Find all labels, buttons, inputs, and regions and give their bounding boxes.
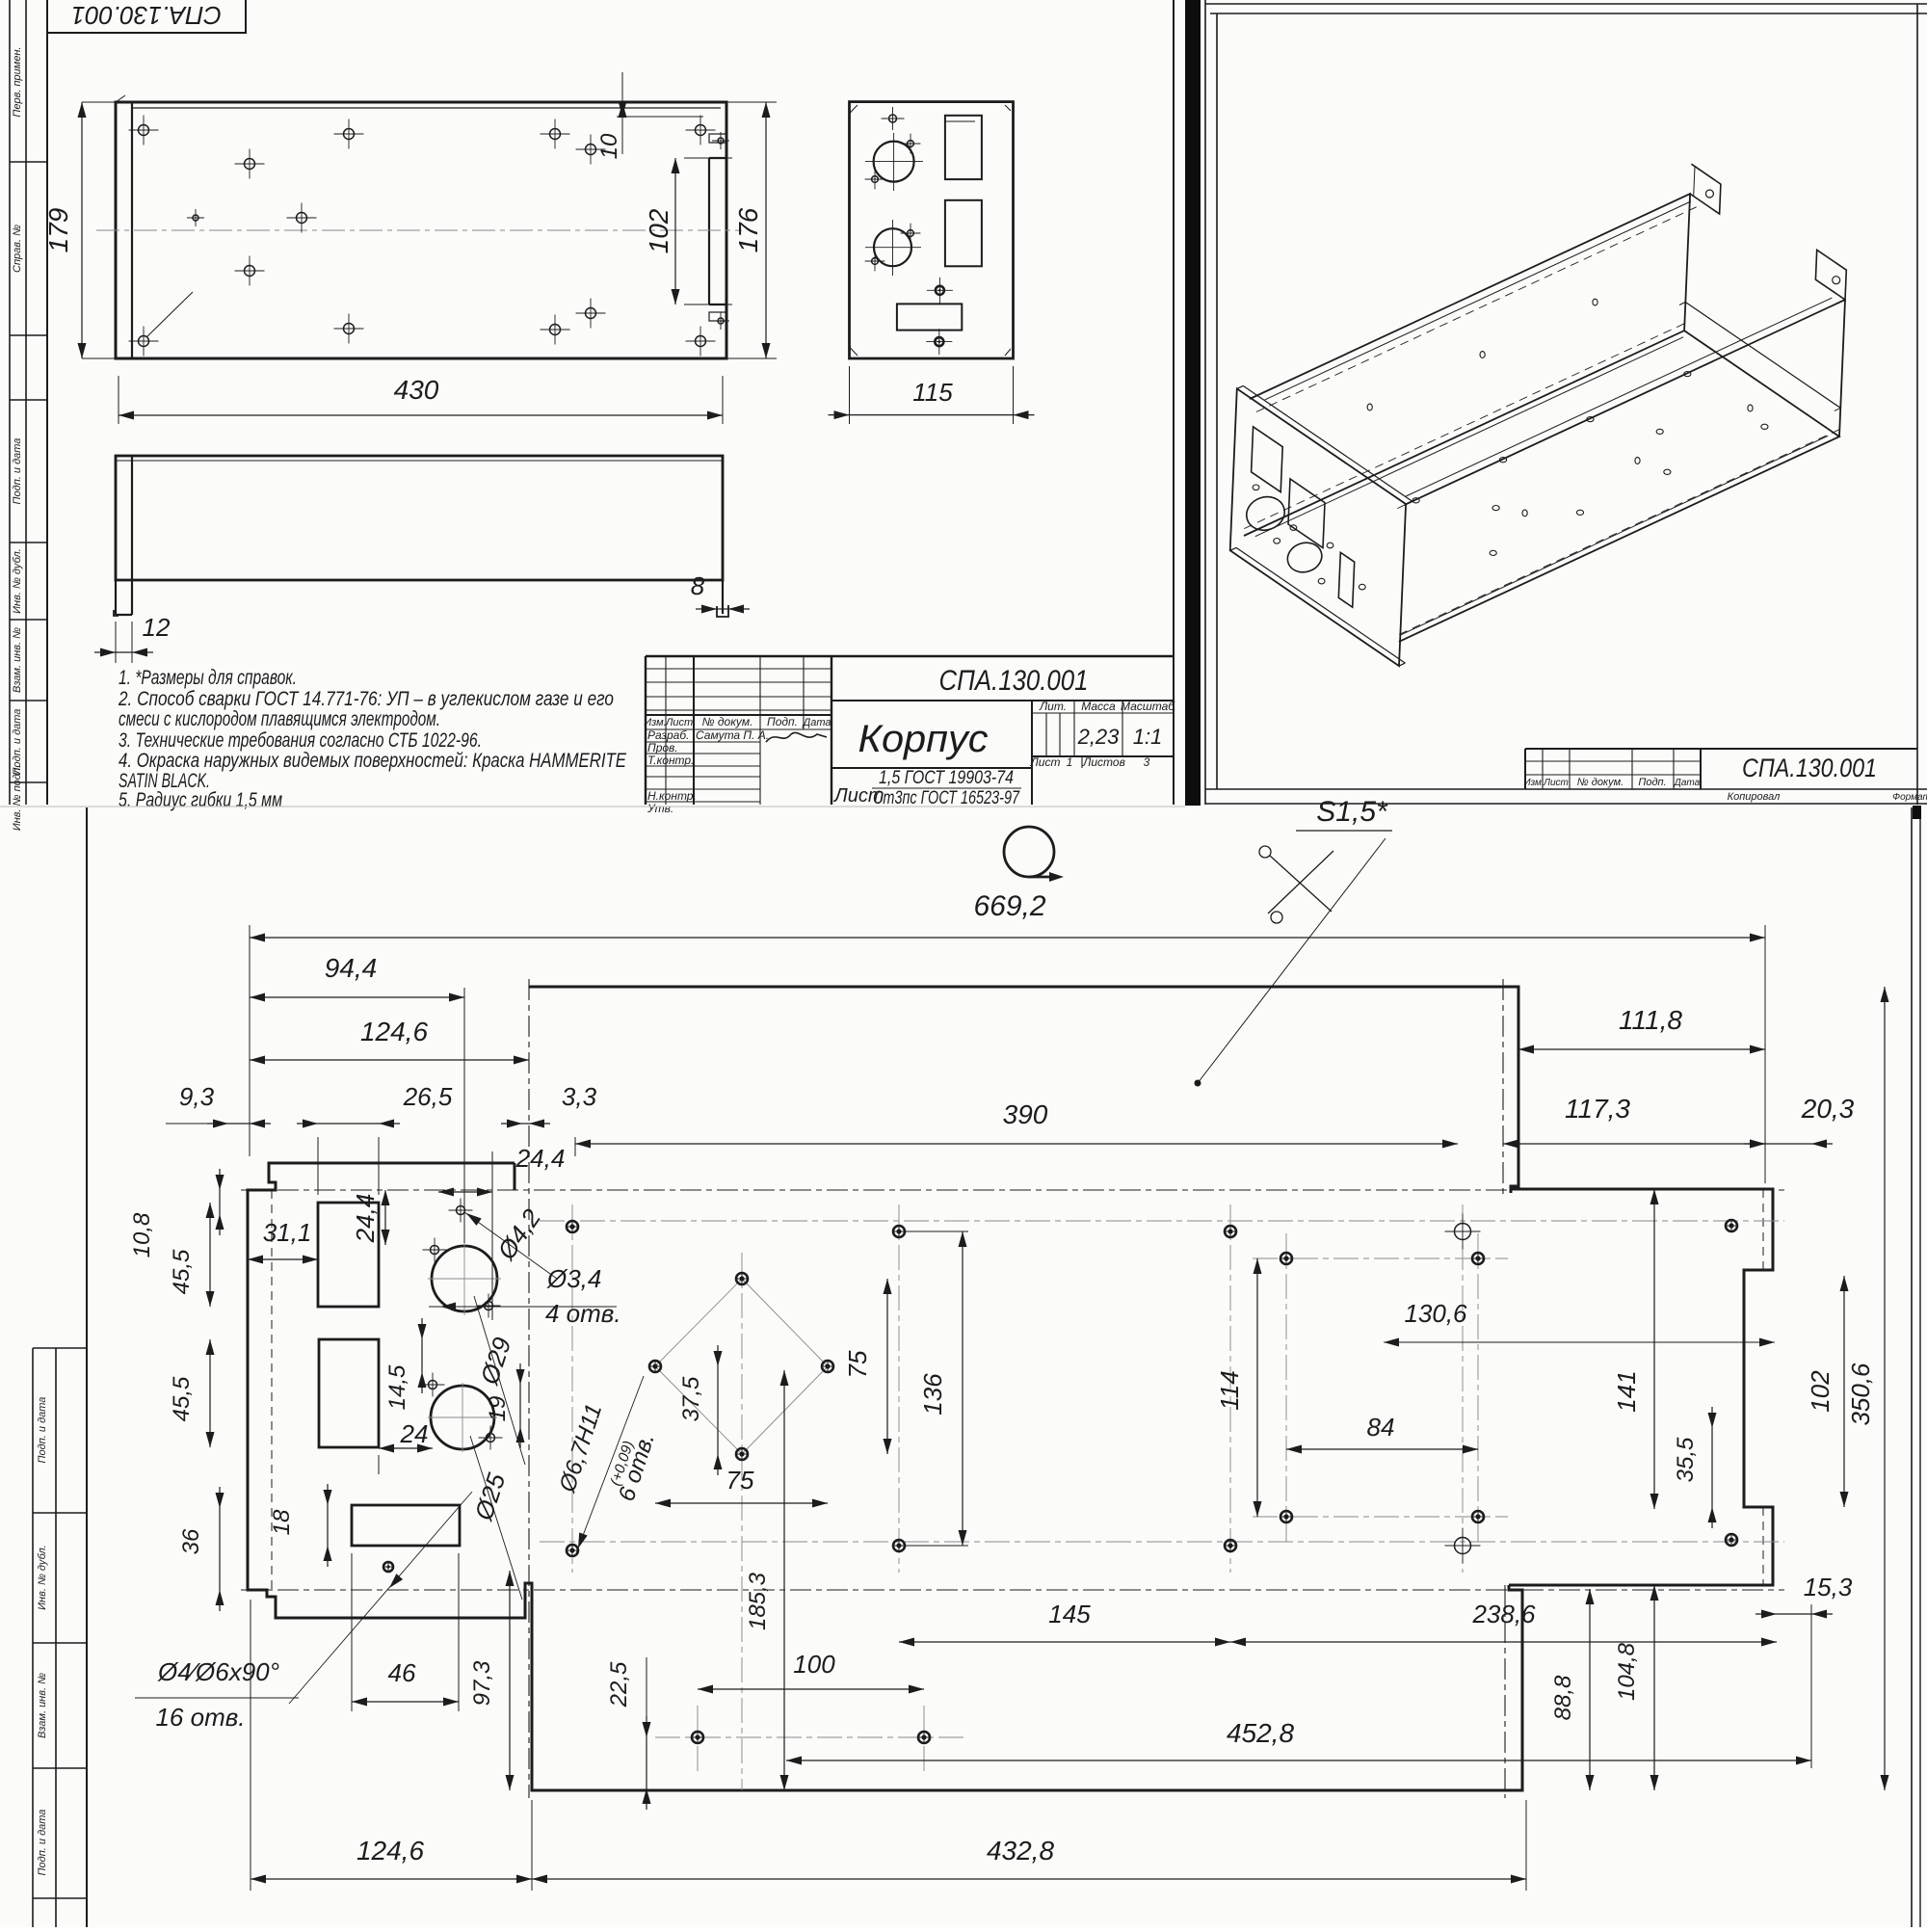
svg-text:185,3: 185,3 xyxy=(745,1572,771,1630)
dim 179 xyxy=(82,101,116,103)
dim 102 xyxy=(684,157,732,159)
svg-text:Разраб.: Разраб. xyxy=(647,728,689,742)
panel round holes isometric xyxy=(1242,492,1289,536)
svg-text:100: 100 xyxy=(793,1650,835,1679)
svg-text:СПА.130.001: СПА.130.001 xyxy=(1742,754,1877,782)
dim 88.8 xyxy=(1589,1589,1591,1790)
svg-text:124,6: 124,6 xyxy=(356,1836,424,1866)
svg-text:Перв. примен.: Перв. примен. xyxy=(12,46,23,117)
dim 100 xyxy=(698,1688,924,1690)
dim 19 xyxy=(519,1385,521,1427)
list row xyxy=(1081,756,1083,768)
diamond pattern xyxy=(655,1279,742,1366)
svg-text:88,8: 88,8 xyxy=(1550,1675,1576,1720)
svg-text:S1,5*: S1,5* xyxy=(1316,796,1388,828)
dim 15.3 xyxy=(1777,1613,1811,1615)
top view centerline xyxy=(96,229,742,231)
dim 97.3 xyxy=(509,1571,511,1790)
svg-text:45,5: 45,5 xyxy=(169,1249,195,1294)
dim 24 xyxy=(378,1455,380,1474)
svg-text:35,5: 35,5 xyxy=(1673,1437,1699,1482)
bottom holes iso xyxy=(1412,498,1419,503)
dim 104.8 xyxy=(1653,1585,1655,1790)
isometric box edges xyxy=(1244,331,1839,642)
svg-text:124,6: 124,6 xyxy=(360,1017,428,1046)
panel circle 1 xyxy=(874,142,914,182)
scan separator band xyxy=(1185,0,1201,806)
svg-text:4. Окраска наружных видемых: 4. Окраска наружных видемых поверхностей… xyxy=(119,750,627,772)
svg-text:Справ. №: Справ. № xyxy=(12,225,23,273)
svg-text:Пров.: Пров. xyxy=(647,741,678,754)
svg-text:Лит.: Лит. xyxy=(1039,700,1067,713)
dim 145 238.6 xyxy=(899,1641,1230,1643)
sheet3 left margin boxes xyxy=(86,807,88,1927)
svg-text:СПА.130.001: СПА.130.001 xyxy=(939,665,1089,697)
dim 10.8 xyxy=(219,1190,221,1214)
dim 14.5 xyxy=(421,1339,423,1372)
panel holes xyxy=(889,115,897,122)
svg-text:141: 141 xyxy=(1612,1370,1641,1412)
svg-text:37,5: 37,5 xyxy=(678,1376,704,1421)
dim 111.8 xyxy=(1518,1048,1765,1050)
svg-text:432,8: 432,8 xyxy=(987,1836,1054,1866)
svg-text:8: 8 xyxy=(691,571,705,600)
dim 3.3 xyxy=(522,1123,529,1125)
top view right notch xyxy=(708,158,710,304)
svg-text:26,5: 26,5 xyxy=(403,1082,453,1111)
back-right tab xyxy=(1815,250,1846,300)
svg-text:115: 115 xyxy=(912,378,953,407)
svg-text:1: 1 xyxy=(1067,755,1073,769)
dim 176 xyxy=(726,101,777,103)
svg-text:669,2: 669,2 xyxy=(973,890,1045,922)
dim 20.3 xyxy=(1765,1143,1811,1145)
svg-text:смеси с кислородом плавящимся: смеси с кислородом плавящимся электродом… xyxy=(119,708,440,730)
svg-text:84: 84 xyxy=(1367,1413,1395,1442)
dim 18 xyxy=(327,1505,329,1546)
svg-text:Т.контр.: Т.контр. xyxy=(647,754,694,767)
svg-text:3. Технические требования сог: 3. Технические требования согласно СТБ 1… xyxy=(119,729,482,752)
dim 117.3 xyxy=(1503,1143,1765,1145)
svg-text:18: 18 xyxy=(269,1509,295,1535)
svg-text:Изм.: Изм. xyxy=(1523,778,1544,788)
svg-text:Подп.: Подп. xyxy=(767,715,798,728)
svg-text:Лист: Лист xyxy=(1030,755,1061,769)
svg-text:390: 390 xyxy=(1003,1099,1048,1129)
dim 84 xyxy=(1286,1448,1478,1450)
svg-text:1:1: 1:1 xyxy=(1133,725,1163,749)
svg-text:Лист: Лист xyxy=(1543,778,1569,788)
svg-text:111,8: 111,8 xyxy=(1619,1005,1682,1035)
lit massa masshtab xyxy=(1032,712,1174,714)
side panel view outline xyxy=(850,102,1014,358)
svg-text:2,23: 2,23 xyxy=(1077,725,1121,749)
svg-text:Самута П. А.: Самута П. А. xyxy=(696,728,769,742)
bottom flap holes xyxy=(692,1732,703,1743)
svg-text:75: 75 xyxy=(843,1350,872,1378)
svg-text:45,5: 45,5 xyxy=(169,1376,195,1421)
svg-text:238,6: 238,6 xyxy=(1471,1600,1536,1628)
flat pattern outline left/bottom xyxy=(248,1163,1522,1790)
dim 31.1 xyxy=(248,1258,318,1260)
windows in panel region xyxy=(318,1203,379,1307)
dim 136 xyxy=(905,1231,968,1232)
back-left tab xyxy=(1690,164,1721,214)
svg-text:Подп.: Подп. xyxy=(1638,777,1666,788)
svg-text:19: 19 xyxy=(485,1396,511,1422)
rotation symbol xyxy=(1004,827,1054,877)
dashed bend lines iso xyxy=(1256,207,1697,412)
dim 10 xyxy=(617,116,703,118)
svg-text:176: 176 xyxy=(733,207,763,252)
dim 124.6 xyxy=(250,1059,529,1061)
dim 452.8 xyxy=(786,1760,1811,1761)
dim 130.6 xyxy=(1384,1341,1775,1343)
dim 94.4 xyxy=(463,988,465,1243)
svg-text:Подп. и дата: Подп. и дата xyxy=(12,438,23,505)
svg-text:3: 3 xyxy=(1144,755,1150,769)
front view outline xyxy=(116,456,723,580)
dim 45.5 lower xyxy=(209,1339,211,1447)
svg-text:94,4: 94,4 xyxy=(325,953,378,983)
pitch centerlines gray xyxy=(540,1220,1784,1222)
svg-text:Н.контр.: Н.контр. xyxy=(647,789,697,803)
dim 22.5 xyxy=(646,1737,647,1788)
svg-text:350,6: 350,6 xyxy=(1846,1363,1875,1426)
svg-text:№ докум.: № докум. xyxy=(1577,777,1623,788)
svg-text:СПА.130.001: СПА.130.001 xyxy=(71,1,222,30)
dim 9.3 xyxy=(228,1123,250,1125)
sheet3 right frame xyxy=(1911,807,1913,1927)
sheet 2 frame xyxy=(1205,3,1927,5)
flat pattern outline top/right xyxy=(529,987,1518,1193)
svg-text:Изм.: Изм. xyxy=(644,717,666,728)
svg-text:15,3: 15,3 xyxy=(1804,1573,1853,1601)
svg-text:12: 12 xyxy=(143,613,171,642)
svg-text:10: 10 xyxy=(596,133,622,159)
svg-text:20,3: 20,3 xyxy=(1801,1094,1855,1124)
svg-text:Копировал: Копировал xyxy=(1728,791,1781,803)
title block sheet 1 xyxy=(646,655,1174,657)
top-left stamp box xyxy=(47,0,246,33)
svg-text:145: 145 xyxy=(1048,1600,1091,1628)
svg-text:46: 46 xyxy=(388,1658,416,1687)
svg-text:Формат: Формат xyxy=(1892,792,1927,803)
svg-text:Дата: Дата xyxy=(1674,778,1701,788)
svg-text:Инв. № дубл.: Инв. № дубл. xyxy=(12,548,23,614)
dim 115 xyxy=(849,366,851,424)
svg-text:75: 75 xyxy=(726,1466,754,1495)
svg-text:Инв. № дубл.: Инв. № дубл. xyxy=(37,1545,48,1610)
dim 12 xyxy=(115,622,117,663)
svg-text:430: 430 xyxy=(394,375,439,405)
sheet2 title strip xyxy=(1525,748,1917,750)
svg-text:Ст3пс ГОСТ 16523-97: Ст3пс ГОСТ 16523-97 xyxy=(873,788,1020,808)
svg-text:36: 36 xyxy=(178,1528,204,1554)
svg-text:5. Радиус гибки 1,5 мм: 5. Радиус гибки 1,5 мм xyxy=(119,789,282,811)
scissors symbol xyxy=(1268,851,1333,913)
svg-text:114: 114 xyxy=(1215,1370,1244,1410)
dim 390 xyxy=(574,1137,576,1156)
svg-text:102: 102 xyxy=(1806,1370,1835,1413)
svg-text:2. Способ сварки ГОСТ 14.771-: 2. Способ сварки ГОСТ 14.771-76: УП – в … xyxy=(118,688,614,710)
signature xyxy=(766,732,827,742)
dim 350.6 xyxy=(1884,987,1886,1790)
svg-text:104,8: 104,8 xyxy=(1614,1642,1640,1701)
svg-text:22,5: 22,5 xyxy=(606,1661,632,1707)
svg-text:Ø3,4: Ø3,4 xyxy=(546,1264,601,1293)
dim 75 horizontal xyxy=(655,1502,828,1504)
svg-text:16 отв.: 16 отв. xyxy=(155,1703,245,1732)
dim 430 xyxy=(118,376,119,424)
sheet 1 frame and margin columns xyxy=(9,0,11,805)
svg-text:9,3: 9,3 xyxy=(179,1082,215,1111)
dim 24.4 horizontal xyxy=(438,1191,492,1193)
dim 102 xyxy=(1843,1276,1845,1507)
svg-text:14,5: 14,5 xyxy=(384,1364,410,1410)
dim 8 xyxy=(717,608,728,610)
designation cell xyxy=(832,700,1174,701)
name cell Корпус xyxy=(832,767,1032,769)
svg-text:130,6: 130,6 xyxy=(1404,1299,1467,1328)
svg-text:Масса: Масса xyxy=(1081,700,1116,713)
back low wall xyxy=(1685,303,1840,409)
side wall holes iso xyxy=(1367,404,1372,410)
svg-text:136: 136 xyxy=(918,1373,947,1416)
svg-text:102: 102 xyxy=(644,208,673,253)
dim 37.5 xyxy=(717,1366,719,1454)
svg-text:24,4: 24,4 xyxy=(515,1144,566,1173)
panel rect cutouts xyxy=(945,116,982,179)
dim 432.8 and 124.6 bottom xyxy=(250,1600,251,1891)
dim 46 xyxy=(351,1553,353,1711)
main panel holes xyxy=(567,1221,578,1232)
dim 669.2 xyxy=(249,925,251,1156)
panel slots isometric xyxy=(1252,427,1283,492)
dim 75 vertical xyxy=(886,1279,888,1454)
bend lines dash-dot xyxy=(241,1189,1784,1191)
svg-text:4 отв.: 4 отв. xyxy=(545,1299,621,1328)
dim 24.4 rotated xyxy=(384,1190,386,1245)
dim 45.5 upper xyxy=(209,1203,211,1307)
top view holes xyxy=(139,125,149,136)
weld leader top view xyxy=(146,292,193,337)
top view outline xyxy=(116,102,726,358)
svg-text:Лист: Лист xyxy=(665,717,693,728)
svg-text:Взам. инв. №: Взам. инв. № xyxy=(37,1673,48,1738)
svg-text:Дата: Дата xyxy=(801,717,831,728)
dim 36 xyxy=(219,1508,221,1590)
panel corner marks xyxy=(850,105,858,114)
svg-text:№ докум.: № докум. xyxy=(702,715,753,728)
svg-text:31,1: 31,1 xyxy=(263,1218,312,1247)
small holes around circles xyxy=(431,1246,439,1255)
scan boundary xyxy=(0,806,1185,807)
svg-text:117,3: 117,3 xyxy=(1565,1094,1630,1124)
dim 35.5 xyxy=(1711,1428,1713,1507)
svg-text:1. *Размеры для справок.: 1. *Размеры для справок. xyxy=(119,667,297,689)
svg-text:Корпус: Корпус xyxy=(858,718,989,760)
dim 114 xyxy=(1256,1258,1258,1517)
dim 141 xyxy=(1653,1189,1655,1509)
svg-text:10,8: 10,8 xyxy=(129,1212,155,1257)
panel circle 2 xyxy=(874,228,911,266)
front panel xyxy=(1230,388,1406,666)
svg-text:24,4: 24,4 xyxy=(351,1194,380,1244)
svg-text:Листов: Листов xyxy=(1082,755,1125,769)
svg-text:Ø4⁄Ø6х90°: Ø4⁄Ø6х90° xyxy=(157,1657,279,1686)
svg-text:1,5 ГОСТ 19903-74: 1,5 ГОСТ 19903-74 xyxy=(879,768,1014,788)
svg-text:Взам. инв. №: Взам. инв. № xyxy=(12,627,23,693)
dim 26.5 xyxy=(317,1137,319,1195)
svg-text:Утв.: Утв. xyxy=(647,802,673,815)
svg-text:452,8: 452,8 xyxy=(1227,1718,1294,1748)
svg-text:24: 24 xyxy=(400,1419,429,1448)
svg-text:3,3: 3,3 xyxy=(562,1082,597,1111)
svg-text:179: 179 xyxy=(43,208,73,253)
svg-text:Масштаб: Масштаб xyxy=(1121,700,1175,713)
dim 185.3 xyxy=(783,1370,785,1790)
svg-text:97,3: 97,3 xyxy=(469,1660,495,1706)
svg-text:Подп. и дата: Подп. и дата xyxy=(37,1810,48,1876)
connector circles xyxy=(432,1246,497,1311)
svg-text:Подп. и дата: Подп. и дата xyxy=(37,1397,48,1464)
small holes iso xyxy=(1253,485,1259,490)
svg-text:Инв. № подл.: Инв. № подл. xyxy=(12,765,23,831)
